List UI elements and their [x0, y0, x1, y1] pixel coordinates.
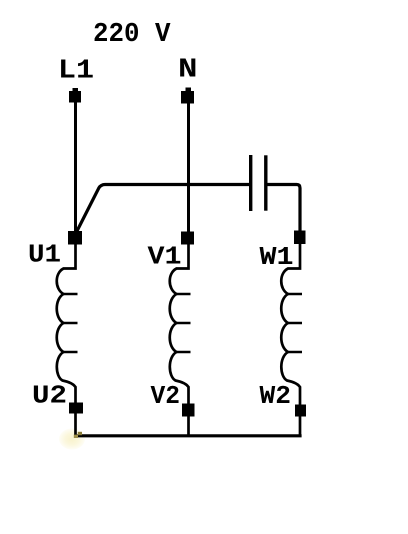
capacitor C left plate: [249, 155, 252, 211]
svg-text:N: N: [178, 56, 198, 86]
terminal W1: [294, 231, 306, 245]
terminal V1: [181, 232, 194, 245]
yellow marker artifact over bottom-left wire corner: [74, 432, 82, 438]
capacitor C right plate: [264, 155, 267, 210]
svg-text:V1: V1: [148, 242, 182, 272]
winding U1-U2 coil: [57, 238, 78, 436]
svg-text:W1: W1: [260, 242, 294, 272]
terminal L1: [69, 88, 81, 103]
wire L1 down to U1: [74, 97, 77, 238]
wire N down to V1: [187, 97, 190, 238]
wire from U1 diagonal up to top horizontal to capacitor: [77, 185, 250, 232]
winding V1-V2 coil: [170, 238, 191, 436]
terminal W2: [295, 405, 306, 417]
terminal N: [181, 88, 194, 104]
wire capacitor to W1: [266, 185, 300, 238]
svg-text:U2: U2: [32, 381, 67, 411]
svg-text:W2: W2: [260, 381, 292, 411]
terminal V2: [182, 404, 195, 417]
svg-text:L1: L1: [58, 57, 94, 87]
bottom wire joining U2 V2 W2: [74, 434, 302, 437]
winding W1-W2 coil: [281, 238, 302, 436]
terminal U2: [69, 403, 83, 414]
terminal U1: [68, 231, 82, 245]
svg-text:U1: U1: [28, 240, 61, 270]
svg-text:220 V: 220 V: [93, 20, 171, 50]
yellow marker halo behind bottom-left corner: [59, 429, 85, 450]
svg-text:V2: V2: [151, 381, 181, 411]
